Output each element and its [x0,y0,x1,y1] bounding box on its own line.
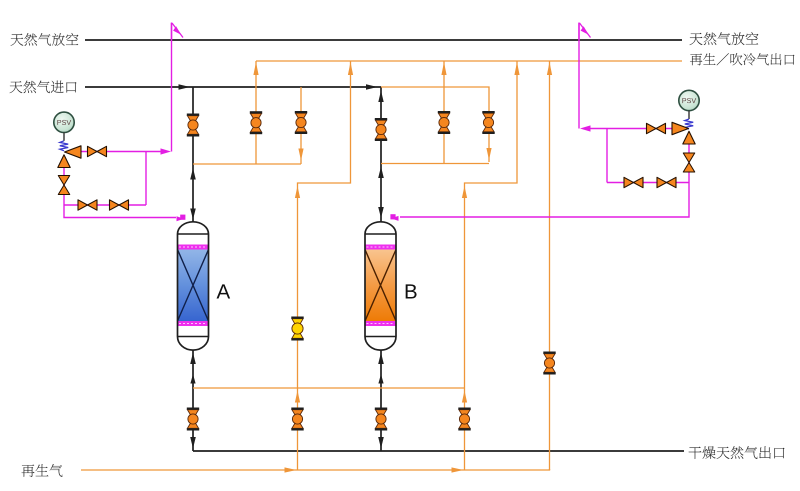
node at vessel B nozzle [390,214,395,219]
valve on A riser 1 [250,111,262,134]
node at vessel A nozzle [180,215,185,220]
left PSV outlet gate valve [88,146,107,156]
B riser 1 up arrow at header [441,62,446,75]
label dry natural gas outlet label [689,446,785,459]
B feed regen up arrow [378,167,384,179]
label natural gas vent label right [690,32,759,45]
B feed up arrow [378,91,383,103]
label natural gas vent label left [11,33,79,46]
B regen riser wire with jog [465,61,518,470]
vessel A bottom outlet wire [192,351,194,452]
regen line arrow 2 [452,467,464,472]
bottom regen manifold wire [193,387,465,389]
A bottom up arrow 2 [190,374,195,384]
right bypass gate valve 2 [657,177,676,187]
vessel A outline [178,222,209,350]
left PSV leg arrow at vessel A [177,216,185,221]
inlet flow arrow at B junction [366,84,378,89]
label regen blow gas outlet label [690,53,794,65]
vent flag symbol right [579,23,591,41]
A bottom down arrow at header [190,437,196,449]
right bypass drop wire [606,129,608,183]
inlet extension wire to B side [381,87,489,162]
valve on B regen riser lower [458,408,470,431]
vessel A inlet drop wire [192,87,194,222]
left bypass gate valve 1 [78,200,97,210]
A regen riser up arrow below jog [295,186,300,198]
pressure safety valve instrument right PSV bubble [679,90,699,110]
B feed down arrow [378,207,384,218]
B bottom up arrow 2 [378,374,383,384]
valve on A regen riser lower [291,408,303,431]
vessel B packed bed [365,250,396,322]
vessel B bed cross brace [365,250,396,322]
pressure safety valve instrument left PSV bubble [54,112,74,132]
A section riser 1 wire [255,61,257,164]
adsorber vessel B shell [365,222,396,350]
left bypass wire [64,204,146,206]
valve on B inlet drop [375,118,387,141]
valve on A riser 2 [295,111,307,134]
right PSV inlet block valve [683,153,695,172]
vessel A bed cross brace [178,250,209,322]
vessel A packed bed [178,250,209,322]
A section riser 2 wire [300,87,302,164]
regen line arrow 1 [285,467,297,472]
A regen riser up arrow at header [348,62,353,75]
right bypass gate valve 1 [624,177,643,187]
vessel B inlet drop wire [380,87,382,222]
left PSV relief angle valve [58,146,81,168]
A bottom up arrow 1 [190,353,196,365]
right PSV outlet wire [583,128,673,130]
B regen riser up arrow at manifold [462,391,467,403]
A feed regen up arrow [190,168,196,180]
left PSV spring [60,141,68,151]
natural gas vent header [85,39,682,41]
right vent riser wire [578,23,580,129]
left PSV outlet wire [81,151,167,153]
adsorber vessel A shell [178,222,209,350]
vessel A bottom support band [178,321,209,326]
right PSV stem [688,111,690,119]
yellow control valve between vessels [291,317,303,341]
natural gas inlet header [85,86,381,88]
B drop down arrow [486,148,491,160]
left PSV inlet block valve [58,176,70,195]
A section lower header wire [193,163,301,165]
B regen riser up arrow at header [514,62,519,75]
vent flag symbol left [172,23,184,41]
right PSV relief angle valve [672,122,695,144]
vessel B outline [365,222,396,350]
vessel B bottom outlet wire [380,351,382,452]
left bypass drop wire [145,152,147,206]
B section riser 1 wire [443,61,445,164]
B section lower header wire [381,163,489,165]
B bottom down arrow at header [378,437,384,449]
inlet flow arrow at A junction [179,84,191,89]
right PSV outlet gate valve [647,123,666,133]
valve on B riser 1 [438,111,450,134]
B regen riser up arrow below jog [462,186,467,198]
left vent riser wire [171,23,173,152]
B bottom up arrow 1 [378,353,384,365]
left PSV outlet arrow [161,148,172,154]
left PSV inlet leg wire [64,166,176,218]
right PSV outlet arrow [580,125,591,131]
regeneration gas supply line [81,469,550,470]
right bypass wire [607,182,689,184]
A feed down arrow [190,209,196,220]
regeneration gas outlet header [256,60,682,62]
valve on blow gas riser [543,352,555,375]
left bypass gate valve 2 [110,200,129,210]
valve on A inlet drop [187,114,199,137]
vessel B top support band [365,245,396,250]
A riser 1 up arrow at header [253,62,258,75]
dry gas outlet header [193,450,684,452]
blow gas riser wire [549,61,551,470]
vessel B bottom support band [365,321,396,326]
right PSV leg arrow at vessel B [391,216,399,221]
valve on B bottom outlet [375,408,387,431]
label regeneration gas label [22,464,63,477]
A regen riser up arrow at manifold [295,391,300,403]
right PSV inlet leg wire [400,144,689,217]
vessel A tag text [217,284,231,298]
A regen riser wire with jog [298,61,351,470]
vessel B tag text [406,284,417,298]
left PSV stem [63,133,65,141]
blow gas riser up arrow at header [547,62,552,75]
valve on B drop [482,111,494,134]
right PSV spring [685,119,693,129]
vessel A top support band [178,245,209,250]
A riser 2 down arrow [298,149,303,161]
label natural gas inlet label [10,81,77,94]
valve on A bottom outlet [187,408,199,431]
